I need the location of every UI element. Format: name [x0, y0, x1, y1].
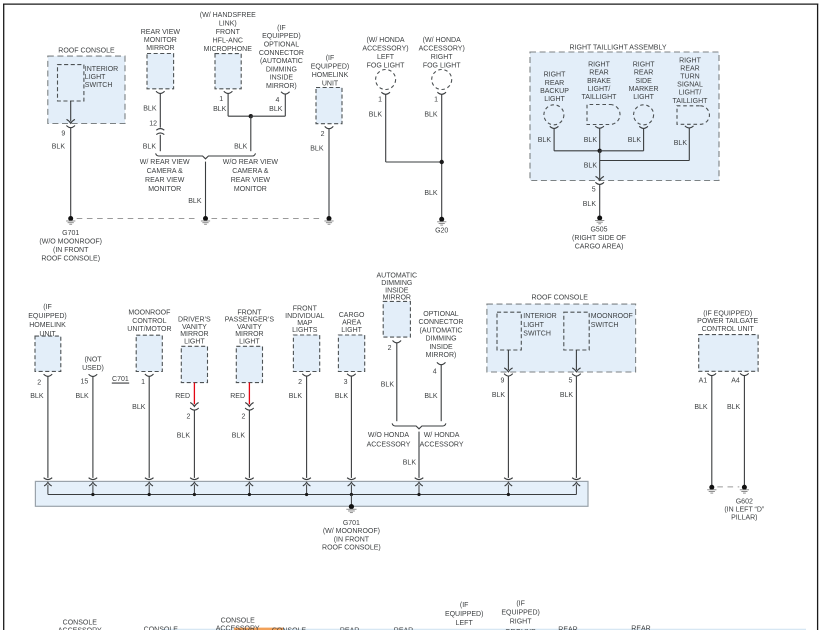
- svg-text:1: 1: [141, 379, 145, 386]
- svg-text:REAR: REAR: [545, 80, 564, 87]
- svg-text:2: 2: [241, 413, 245, 420]
- svg-text:MONITOR: MONITOR: [234, 186, 267, 193]
- svg-text:DRIVER’S: DRIVER’S: [178, 317, 211, 324]
- svg-text:MIRROR: MIRROR: [180, 331, 208, 338]
- svg-text:ACCESSORY: ACCESSORY: [367, 441, 411, 448]
- svg-text:(IF: (IF: [516, 600, 525, 607]
- svg-text:A4: A4: [731, 377, 740, 384]
- svg-text:MIRROR: MIRROR: [146, 45, 174, 52]
- svg-text:EQUIPPED): EQUIPPED): [28, 313, 67, 320]
- svg-text:(IF: (IF: [43, 304, 52, 311]
- svg-text:TURN: TURN: [680, 74, 699, 81]
- svg-text:(W/ HANDSFREE: (W/ HANDSFREE: [200, 12, 256, 19]
- svg-text:DIMMING: DIMMING: [425, 336, 456, 343]
- svg-text:REAR VIEW: REAR VIEW: [141, 29, 181, 36]
- svg-text:W/ HONDA: W/ HONDA: [424, 432, 460, 439]
- svg-text:BLK: BLK: [75, 393, 89, 400]
- svg-text:UNIT/MOTOR: UNIT/MOTOR: [127, 326, 171, 333]
- svg-text:2: 2: [37, 380, 41, 387]
- svg-text:BLK: BLK: [232, 433, 246, 440]
- svg-text:(IN FRONT: (IN FRONT: [334, 536, 370, 543]
- svg-text:4: 4: [275, 97, 279, 104]
- svg-text:2: 2: [298, 379, 302, 386]
- svg-text:FRONT: FRONT: [237, 309, 262, 316]
- svg-text:CARGO AREA): CARGO AREA): [575, 244, 624, 251]
- svg-text:C701: C701: [112, 376, 129, 383]
- svg-text:BLK: BLK: [369, 111, 383, 118]
- svg-text:AREA: AREA: [342, 320, 361, 327]
- svg-text:1: 1: [434, 97, 438, 104]
- svg-text:3: 3: [344, 379, 348, 386]
- svg-text:RIGHT TAILLIGHT ASSEMBLY: RIGHT TAILLIGHT ASSEMBLY: [570, 45, 667, 52]
- svg-text:EQUIPPED): EQUIPPED): [445, 611, 484, 618]
- svg-text:SWITCH: SWITCH: [85, 82, 113, 89]
- svg-text:SIGNAL: SIGNAL: [677, 82, 703, 89]
- svg-text:MONITOR: MONITOR: [144, 37, 177, 44]
- svg-text:LINK): LINK): [219, 21, 237, 28]
- svg-text:CONTROL: CONTROL: [132, 318, 166, 325]
- svg-text:RIGHT: RIGHT: [588, 61, 611, 68]
- svg-text:INTERIOR: INTERIOR: [85, 66, 118, 73]
- svg-text:(AUTOMATIC: (AUTOMATIC: [260, 58, 303, 65]
- svg-text:FRONT: FRONT: [293, 306, 318, 313]
- svg-text:G701: G701: [62, 230, 79, 237]
- svg-text:FRONT: FRONT: [216, 29, 241, 36]
- svg-text:LIGHT: LIGHT: [633, 94, 654, 101]
- svg-text:MAP: MAP: [297, 320, 313, 327]
- svg-text:G701: G701: [343, 520, 360, 527]
- svg-text:BLK: BLK: [132, 404, 146, 411]
- svg-text:BLK: BLK: [560, 392, 574, 399]
- svg-text:DIMMING: DIMMING: [381, 280, 412, 287]
- svg-text:2: 2: [321, 131, 325, 138]
- svg-text:REAR: REAR: [631, 625, 650, 630]
- svg-text:RIGHT: RIGHT: [510, 619, 533, 626]
- svg-text:5: 5: [592, 187, 596, 194]
- svg-text:FOG LIGHT: FOG LIGHT: [423, 62, 461, 69]
- svg-text:1: 1: [378, 97, 382, 104]
- svg-text:W/ REAR VIEW: W/ REAR VIEW: [140, 159, 190, 166]
- svg-text:MIRROR): MIRROR): [426, 352, 457, 359]
- svg-text:EQUIPPED): EQUIPPED): [262, 33, 301, 40]
- svg-text:OPTIONAL: OPTIONAL: [423, 311, 459, 318]
- svg-text:A1: A1: [699, 377, 708, 384]
- svg-text:4: 4: [433, 369, 437, 376]
- svg-text:RIGHT: RIGHT: [431, 54, 454, 61]
- svg-text:RED: RED: [230, 393, 245, 400]
- svg-text:SWITCH: SWITCH: [523, 331, 551, 338]
- svg-text:G602: G602: [736, 498, 753, 505]
- svg-text:LIGHT: LIGHT: [85, 74, 106, 81]
- svg-text:BLK: BLK: [584, 163, 598, 170]
- svg-text:ACCESSORY): ACCESSORY): [419, 46, 465, 53]
- svg-text:SWITCH: SWITCH: [591, 322, 619, 329]
- svg-text:(W/O MOONROOF): (W/O MOONROOF): [39, 239, 102, 246]
- svg-text:12: 12: [149, 121, 157, 128]
- svg-text:G20: G20: [435, 228, 448, 235]
- svg-text:(W/ HONDA: (W/ HONDA: [423, 37, 461, 44]
- svg-text:BLK: BLK: [143, 106, 157, 113]
- svg-text:PILLAR): PILLAR): [731, 514, 757, 521]
- svg-text:BLK: BLK: [177, 433, 191, 440]
- svg-text:REAR: REAR: [634, 70, 653, 77]
- svg-text:LIGHT: LIGHT: [239, 338, 260, 345]
- svg-text:(W/ MOONROOF): (W/ MOONROOF): [323, 528, 380, 535]
- svg-text:2: 2: [186, 413, 190, 420]
- svg-text:FOG LIGHT: FOG LIGHT: [367, 62, 405, 69]
- svg-text:(IN FRONT: (IN FRONT: [53, 247, 89, 254]
- svg-text:REAR: REAR: [589, 70, 608, 77]
- svg-text:BLK: BLK: [492, 392, 506, 399]
- svg-text:BLK: BLK: [628, 137, 642, 144]
- svg-text:HFL-ANC: HFL-ANC: [213, 37, 243, 44]
- svg-text:9: 9: [61, 131, 65, 138]
- svg-text:15: 15: [81, 378, 89, 385]
- svg-text:BLK: BLK: [403, 459, 417, 466]
- svg-text:HOMELINK: HOMELINK: [29, 322, 66, 329]
- svg-text:LIGHT: LIGHT: [544, 96, 565, 103]
- svg-text:REAR VIEW: REAR VIEW: [145, 177, 185, 184]
- svg-text:LEFT: LEFT: [377, 54, 395, 61]
- svg-text:CAMERA &: CAMERA &: [147, 168, 184, 175]
- svg-text:CONNECTOR: CONNECTOR: [419, 319, 464, 326]
- svg-text:CAMERA &: CAMERA &: [232, 168, 269, 175]
- svg-text:9: 9: [500, 377, 504, 384]
- svg-text:RIGHT: RIGHT: [679, 57, 702, 64]
- svg-text:REAR: REAR: [680, 65, 699, 72]
- svg-text:(NOT: (NOT: [84, 357, 102, 364]
- svg-text:TAILLIGHT: TAILLIGHT: [673, 98, 709, 105]
- svg-text:(AUTOMATIC: (AUTOMATIC: [420, 327, 463, 334]
- svg-text:W/O REAR VIEW: W/O REAR VIEW: [223, 159, 279, 166]
- svg-text:VANITY: VANITY: [182, 324, 207, 331]
- svg-text:(IF EQUIPPED): (IF EQUIPPED): [703, 310, 752, 317]
- svg-text:(IF: (IF: [326, 55, 335, 62]
- svg-text:1: 1: [219, 96, 223, 103]
- svg-text:EQUIPPED): EQUIPPED): [501, 610, 540, 617]
- svg-text:ACCESSORY: ACCESSORY: [420, 441, 464, 448]
- svg-text:INTERIOR: INTERIOR: [523, 313, 556, 320]
- svg-text:(IN LEFT “D”: (IN LEFT “D”: [724, 506, 765, 513]
- svg-text:LIGHT: LIGHT: [341, 327, 362, 334]
- svg-text:DIMMING: DIMMING: [266, 66, 297, 73]
- svg-text:5: 5: [568, 377, 572, 384]
- svg-text:VANITY: VANITY: [237, 324, 262, 331]
- svg-text:BLK: BLK: [424, 393, 438, 400]
- svg-text:BLK: BLK: [694, 404, 708, 411]
- svg-text:PASSENGER’S: PASSENGER’S: [225, 317, 275, 324]
- svg-text:BLK: BLK: [424, 190, 438, 197]
- svg-text:BLK: BLK: [674, 140, 688, 147]
- svg-text:BLK: BLK: [188, 198, 202, 205]
- svg-text:REAR VIEW: REAR VIEW: [231, 177, 271, 184]
- svg-text:MOONROOF: MOONROOF: [591, 313, 633, 320]
- svg-text:ACCESSORY: ACCESSORY: [216, 626, 260, 630]
- svg-text:AUTOMATIC: AUTOMATIC: [377, 273, 418, 280]
- svg-text:CARGO: CARGO: [339, 312, 365, 319]
- svg-text:MARKER: MARKER: [629, 86, 659, 93]
- svg-text:BLK: BLK: [289, 393, 303, 400]
- svg-text:INDIVIDUAL: INDIVIDUAL: [285, 313, 324, 320]
- svg-text:LIGHT: LIGHT: [523, 322, 544, 329]
- svg-text:INSIDE: INSIDE: [385, 287, 409, 294]
- svg-text:CONSOLE: CONSOLE: [221, 618, 256, 625]
- svg-text:TAILLIGHT: TAILLIGHT: [582, 94, 618, 101]
- svg-text:ROOF CONSOLE: ROOF CONSOLE: [58, 47, 115, 54]
- svg-text:BLK: BLK: [583, 201, 597, 208]
- svg-text:BLK: BLK: [335, 393, 349, 400]
- svg-text:MOONROOF: MOONROOF: [128, 310, 170, 317]
- svg-text:ACCESSORY): ACCESSORY): [362, 46, 408, 53]
- svg-text:HOMELINK: HOMELINK: [312, 72, 349, 79]
- svg-text:2: 2: [388, 345, 392, 352]
- svg-text:INSIDE: INSIDE: [429, 344, 453, 351]
- svg-text:RIGHT: RIGHT: [633, 61, 656, 68]
- svg-text:USED): USED): [82, 365, 104, 372]
- svg-text:MIRROR: MIRROR: [383, 295, 411, 302]
- svg-text:RED: RED: [175, 393, 190, 400]
- svg-text:BLK: BLK: [310, 146, 324, 153]
- svg-text:CONSOLE: CONSOLE: [63, 619, 98, 626]
- svg-text:BLK: BLK: [213, 106, 227, 113]
- svg-text:(W/ HONDA: (W/ HONDA: [366, 37, 404, 44]
- svg-text:LIGHT: LIGHT: [184, 338, 205, 345]
- svg-text:BLK: BLK: [30, 393, 44, 400]
- svg-text:BLK: BLK: [234, 144, 248, 151]
- svg-text:BLK: BLK: [727, 404, 741, 411]
- svg-text:INSIDE: INSIDE: [270, 75, 294, 82]
- svg-text:POWER TAILGATE: POWER TAILGATE: [697, 318, 758, 325]
- svg-text:(IF: (IF: [460, 602, 469, 609]
- svg-text:MIRROR): MIRROR): [266, 83, 297, 90]
- svg-text:OPTIONAL: OPTIONAL: [264, 42, 300, 49]
- svg-text:LIGHTS: LIGHTS: [292, 327, 318, 334]
- svg-text:W/O HONDA: W/O HONDA: [368, 432, 410, 439]
- svg-text:BLK: BLK: [584, 137, 598, 144]
- svg-text:SIDE: SIDE: [635, 78, 652, 85]
- svg-text:BLK: BLK: [269, 106, 283, 113]
- svg-text:EQUIPPED): EQUIPPED): [311, 64, 350, 71]
- svg-text:BLK: BLK: [538, 137, 552, 144]
- svg-text:LIGHT/: LIGHT/: [588, 86, 611, 93]
- svg-text:MONITOR: MONITOR: [148, 186, 181, 193]
- svg-text:BLK: BLK: [381, 382, 395, 389]
- svg-text:MICROPHONE: MICROPHONE: [204, 46, 253, 53]
- svg-text:ROOF CONSOLE: ROOF CONSOLE: [531, 295, 588, 302]
- svg-text:BACKUP: BACKUP: [540, 88, 569, 95]
- svg-text:ROOF CONSOLE): ROOF CONSOLE): [322, 545, 381, 552]
- svg-text:MIRROR: MIRROR: [235, 331, 263, 338]
- svg-text:RIGHT: RIGHT: [544, 72, 567, 79]
- svg-text:CONTROL UNIT: CONTROL UNIT: [702, 326, 755, 333]
- svg-text:BLK: BLK: [424, 111, 438, 118]
- svg-text:(RIGHT SIDE OF: (RIGHT SIDE OF: [572, 235, 626, 242]
- svg-text:BLK: BLK: [52, 144, 66, 151]
- svg-text:BLK: BLK: [143, 144, 157, 151]
- svg-text:LEFT: LEFT: [456, 620, 474, 627]
- svg-text:(IF: (IF: [277, 25, 286, 32]
- svg-text:BRAKE: BRAKE: [587, 78, 611, 85]
- svg-text:ROOF CONSOLE): ROOF CONSOLE): [41, 255, 100, 262]
- svg-text:UNIT: UNIT: [322, 81, 339, 88]
- svg-text:CONNECTOR: CONNECTOR: [259, 50, 304, 57]
- svg-text:LIGHT/: LIGHT/: [679, 90, 702, 97]
- svg-text:G505: G505: [590, 227, 607, 234]
